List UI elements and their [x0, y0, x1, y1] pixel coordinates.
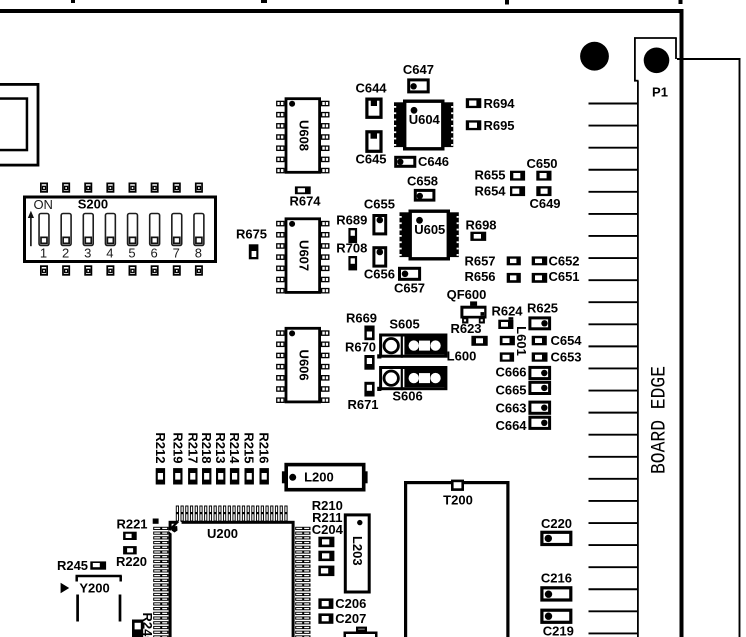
svg-text:C656: C656 — [364, 267, 395, 282]
svg-text:C657: C657 — [394, 281, 425, 296]
svg-text:C651: C651 — [548, 269, 579, 284]
svg-text:U608: U608 — [296, 120, 311, 151]
svg-text:8: 8 — [195, 246, 202, 261]
svg-text:C216: C216 — [541, 571, 572, 586]
svg-text:R240: R240 — [140, 612, 155, 637]
svg-text:C219: C219 — [543, 624, 574, 637]
svg-text:C645: C645 — [355, 151, 386, 166]
svg-text:R213: R213 — [213, 432, 228, 463]
svg-text:L200: L200 — [304, 470, 334, 485]
svg-text:L600: L600 — [447, 349, 477, 364]
svg-text:C206: C206 — [335, 596, 366, 611]
svg-text:2: 2 — [62, 246, 69, 261]
svg-text:S605: S605 — [389, 317, 419, 332]
svg-text:Y200: Y200 — [79, 581, 109, 596]
svg-text:1: 1 — [40, 246, 47, 261]
svg-text:R217: R217 — [185, 432, 200, 463]
svg-text:C650: C650 — [526, 156, 557, 171]
svg-text:R708: R708 — [336, 241, 367, 256]
svg-text:S606: S606 — [392, 389, 422, 404]
svg-text:7: 7 — [173, 246, 180, 261]
svg-text:C652: C652 — [548, 254, 579, 269]
svg-text:R212: R212 — [153, 432, 168, 463]
svg-text:L203: L203 — [350, 536, 365, 566]
svg-text:C647: C647 — [403, 62, 434, 77]
svg-text:R215: R215 — [242, 432, 257, 463]
svg-text:C204: C204 — [312, 522, 344, 537]
svg-text:R657: R657 — [464, 254, 495, 269]
svg-text:R214: R214 — [227, 432, 242, 464]
svg-text:ON: ON — [33, 197, 53, 212]
svg-text:4: 4 — [106, 246, 113, 261]
svg-text:C666: C666 — [495, 365, 526, 380]
svg-text:QF600: QF600 — [447, 287, 487, 302]
svg-text:R216: R216 — [257, 432, 272, 463]
svg-text:5: 5 — [128, 246, 135, 261]
svg-text:C665: C665 — [495, 383, 526, 398]
svg-text:R220: R220 — [116, 554, 147, 569]
svg-text:6: 6 — [151, 246, 158, 261]
svg-text:U200: U200 — [207, 526, 238, 541]
svg-text:R694: R694 — [483, 96, 515, 111]
svg-text:C654: C654 — [550, 333, 582, 348]
svg-text:C655: C655 — [364, 197, 395, 212]
svg-text:R625: R625 — [527, 301, 558, 316]
svg-text:P1: P1 — [652, 85, 668, 100]
svg-text:R221: R221 — [116, 517, 147, 532]
svg-text:R674: R674 — [289, 194, 321, 209]
svg-text:R655: R655 — [474, 168, 505, 183]
svg-text:C649: C649 — [529, 196, 560, 211]
svg-text:R689: R689 — [336, 213, 367, 228]
svg-text:R218: R218 — [199, 432, 214, 463]
svg-text:R670: R670 — [345, 340, 376, 355]
svg-text:C658: C658 — [407, 174, 438, 189]
svg-text:R654: R654 — [474, 184, 506, 199]
svg-text:3: 3 — [84, 246, 91, 261]
svg-text:R675: R675 — [236, 227, 267, 242]
svg-text:C220: C220 — [541, 516, 572, 531]
svg-text:C644: C644 — [355, 81, 387, 96]
svg-text:R219: R219 — [170, 432, 185, 463]
svg-text:BOARD EDGE: BOARD EDGE — [648, 366, 671, 474]
svg-text:R623: R623 — [450, 321, 481, 336]
svg-text:C207: C207 — [335, 611, 366, 626]
svg-text:R656: R656 — [464, 269, 495, 284]
svg-text:R698: R698 — [465, 218, 496, 233]
svg-text:U607: U607 — [296, 240, 311, 271]
svg-text:R245: R245 — [57, 558, 88, 573]
svg-text:L601: L601 — [514, 326, 529, 356]
svg-text:R671: R671 — [347, 397, 378, 412]
svg-text:U604: U604 — [409, 112, 441, 127]
svg-text:S200: S200 — [78, 197, 108, 212]
svg-text:U606: U606 — [296, 350, 311, 381]
svg-text:C653: C653 — [550, 350, 581, 365]
svg-text:C646: C646 — [418, 154, 449, 169]
svg-text:R695: R695 — [483, 118, 514, 133]
svg-text:U605: U605 — [414, 222, 445, 237]
svg-text:R669: R669 — [346, 311, 377, 326]
svg-text:C664: C664 — [495, 418, 527, 433]
svg-text:R624: R624 — [491, 304, 523, 319]
svg-text:T200: T200 — [443, 493, 473, 508]
svg-text:C663: C663 — [495, 401, 526, 416]
